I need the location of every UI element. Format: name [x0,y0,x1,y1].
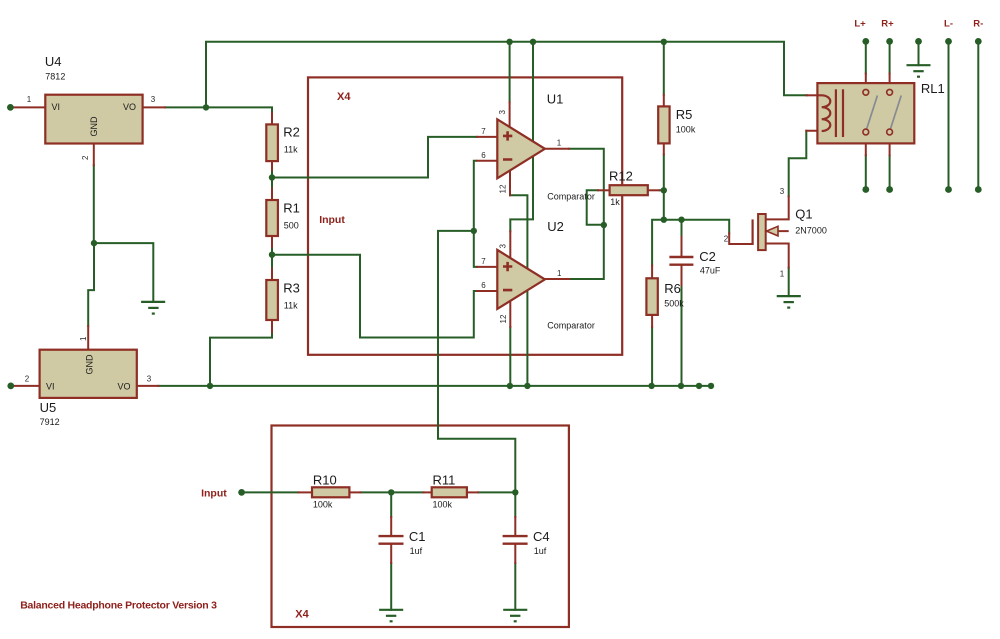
svg-text:3: 3 [780,187,785,196]
wire U4 output stub [143,106,165,108]
svg-text:U5: U5 [40,400,57,415]
wire top +12V rail [206,42,807,108]
svg-text:100k: 100k [676,125,696,135]
svg-text:R11: R11 [433,473,456,488]
capacitor C4 [503,536,528,544]
svg-text:GND: GND [89,116,99,137]
wire U5 output rail -12V [158,385,711,387]
wire C1 top lead [390,517,392,535]
wire R11 to node C4 [478,491,515,493]
wire U2 pin6 stub [477,290,497,292]
wire R6 bottom lead [651,315,653,327]
wire C2 bottom lead [681,266,683,286]
wire U2 pin1 stub [545,278,569,280]
wire terminal ground stub [918,41,920,65]
svg-text:12: 12 [499,184,508,193]
svg-text:6: 6 [481,151,486,160]
wire Q1 gate lead [729,233,752,244]
op-amp U2 [497,250,545,309]
svg-text:R6: R6 [664,281,681,296]
wire R5 top lead [663,95,665,107]
wire Q1 drain lead [766,196,789,219]
svg-text:L-: L- [944,19,953,30]
svg-text:R2: R2 [283,125,300,140]
wire relay R+ contact out [889,155,891,189]
wire R11 right lead [467,491,478,493]
wire U1 pin12 stub [509,171,511,195]
svg-text:11k: 11k [284,301,298,311]
svg-text:RL1: RL1 [921,81,945,96]
wire U4 GND down [93,165,95,243]
capacitor C1 [379,536,404,544]
capacitor C2 [669,257,693,265]
svg-text:7812: 7812 [45,72,65,82]
svg-text:Q1: Q1 [795,207,812,222]
wire relay L+ bottom pin stub [865,135,867,155]
wire U2 pin3 stub [509,231,511,257]
svg-text:7: 7 [481,257,486,266]
svg-text:1: 1 [27,95,32,104]
wire U1 pin6 stub [477,160,497,162]
svg-text:500: 500 [284,221,299,231]
svg-text:500k: 500k [664,299,684,309]
svg-text:R5: R5 [676,107,693,122]
wire R10 to R11 [361,491,424,493]
wire node A to lowpass filter [438,231,515,493]
wire node to C1 [390,492,392,517]
wire bottom Input to R10 [242,491,299,493]
wire C1 bottom lead [390,545,392,563]
wire U1 pin7 stub [477,136,497,138]
resistor R10 [312,487,349,497]
svg-text:U1: U1 [547,92,564,107]
wire relay coil to Q1 drain [789,131,807,197]
svg-text:C1: C1 [409,529,426,544]
subcircuit box X4 upper [308,77,622,354]
wire U4 GND node to U5 GND [88,243,94,326]
ground at Q1 source [777,296,801,308]
wire C2 to rail [681,285,683,386]
resistor R2 [266,124,278,161]
svg-text:47uF: 47uF [700,266,721,276]
svg-text:2N7000: 2N7000 [795,226,827,236]
relay RL1 [817,83,914,143]
svg-text:2: 2 [724,235,729,244]
wire U5 input stub [14,385,40,387]
wire U1 output down [569,149,604,225]
wire U1 pin3 stub [509,102,511,127]
wire R12 left lead [598,189,610,191]
wire rail to R5 [663,42,665,95]
wire R3 bottom lead [271,320,273,332]
svg-text:R10: R10 [313,473,337,488]
svg-text:Comparator: Comparator [547,321,595,331]
wire U1 pin12 to rail [510,195,527,386]
svg-text:U4: U4 [45,54,62,69]
wire C2 top lead [681,237,683,256]
subcircuit box X4 lower [272,426,569,628]
wire R2 top lead [271,113,273,124]
wire C4 top lead [514,492,516,517]
wire U2 output up [569,225,604,279]
wire U2 pin12 stub [509,302,511,328]
svg-text:100k: 100k [313,500,333,510]
wire Q1 source to ground [788,268,790,297]
svg-text:3: 3 [151,95,156,104]
svg-text:3: 3 [498,110,507,115]
svg-text:1uf: 1uf [534,546,547,556]
wire U1 pin6 vertical to node A [474,161,477,267]
svg-text:R+: R+ [881,19,894,30]
svg-text:VO: VO [123,102,136,112]
svg-text:Input: Input [201,488,227,500]
svg-text:7912: 7912 [40,417,60,427]
transistor Q1 [753,214,789,250]
svg-text:2: 2 [81,155,90,160]
wire R5 bottom lead [663,143,665,154]
ground below C1 [379,610,403,622]
resistor R12 [610,185,648,195]
wire rail to U1 pin3 [509,42,511,102]
wire L+ terminal to relay [865,41,867,73]
svg-text:1uf: 1uf [410,546,423,556]
ground at terminals [907,65,931,77]
wire node R1/R3 to U2 pin6 [272,255,477,338]
resistor R3 [266,280,278,320]
svg-text:1k: 1k [610,197,620,207]
wire R+ terminal to relay [889,41,891,73]
svg-text:VI: VI [52,102,61,112]
wire R11 left lead [424,491,432,493]
resistor R6 [646,278,657,315]
wire U4 output to R2 [165,107,272,113]
svg-text:100k: 100k [433,500,453,510]
svg-text:7: 7 [481,127,486,136]
wire U5 pin1 stub [87,326,89,350]
wire R5 to node B [663,155,665,220]
wire node B to R6 [652,220,664,266]
svg-text:3: 3 [499,244,508,249]
wire relay L+ pin stub [865,74,867,90]
svg-text:R3: R3 [283,281,300,296]
wire C4 to ground [514,563,516,610]
svg-text:C4: C4 [533,529,550,544]
svg-text:Balanced Headphone Protector V: Balanced Headphone Protector Version 3 [20,600,217,612]
wire U4 GND node to ground [94,243,153,302]
wire R6 top lead [651,266,653,279]
wire R2 bottom lead [271,161,273,170]
wire C4 lower lead [514,545,516,563]
wire R6 to rail [651,327,653,386]
wire R1 bottom lead [271,236,273,247]
wire relay L+ contact out [865,155,867,189]
resistor R5 [658,106,669,143]
regulator U4 body [45,95,142,144]
wire node R2/R1 to U1 pin7 [272,137,477,178]
ground below C4 [503,610,527,622]
svg-text:VI: VI [46,382,55,392]
wire Q1 source lead [766,244,789,268]
wire R1 top lead [271,189,273,201]
wire R12 right to R5 [660,189,664,191]
wire R- terminal [977,41,979,189]
wire L- terminal [948,41,950,189]
wire U2 pin7 stub [477,266,497,268]
wire R12 right lead [648,189,660,191]
svg-text:1: 1 [557,139,562,148]
svg-text:6: 6 [481,281,486,290]
wire rail to U2 pin3 [510,42,533,231]
svg-text:R12: R12 [609,169,633,184]
svg-text:GND: GND [85,354,95,375]
wire C4 upper lead [514,517,516,535]
svg-text:Input: Input [319,214,345,226]
wire relay coil top stub [806,94,818,96]
svg-text:L+: L+ [854,19,866,30]
svg-text:R-: R- [973,19,983,30]
wire R1 to R3 [271,247,273,269]
svg-text:Comparator: Comparator [547,192,595,202]
svg-text:3: 3 [147,375,152,384]
wire R10 right lead [349,491,360,493]
wire R10 left lead [299,491,313,493]
wire node B to Q1 gate [664,220,729,234]
ground between U4 and U5 [141,302,165,314]
svg-text:1: 1 [557,269,562,278]
svg-text:12: 12 [499,314,508,323]
svg-text:U2: U2 [547,219,564,234]
wire R3 top lead [271,269,273,281]
wire U1 pin1 stub [545,148,569,150]
svg-text:X4: X4 [337,91,351,103]
wire U4 input stub [14,106,46,108]
svg-text:1: 1 [780,269,785,278]
wire U2 pin12 to rail [509,327,511,386]
svg-text:1: 1 [79,336,88,341]
wire U5 output stub [137,385,159,387]
wire C1 to ground [390,563,392,610]
svg-text:VO: VO [118,382,131,392]
wire R12 left jog [587,190,604,224]
wire U4 pin2 stub [93,144,95,166]
regulator U5 body [40,350,137,398]
wire R3 bottom to -12V rail [210,332,272,386]
svg-text:C2: C2 [699,249,716,264]
svg-text:X4: X4 [295,609,309,621]
wire relay R+ bottom pin stub [889,135,891,155]
svg-text:2: 2 [25,375,30,384]
wire node B to C2 [681,220,683,237]
op-amp U1 [497,119,545,178]
svg-text:R1: R1 [283,201,300,216]
wire R2 to R1 [271,170,273,189]
wire relay coil bottom stub [806,130,823,132]
svg-text:11k: 11k [284,145,298,155]
resistor R11 [432,487,467,497]
resistor R1 [266,200,278,236]
wire relay R+ pin stub [889,74,891,90]
